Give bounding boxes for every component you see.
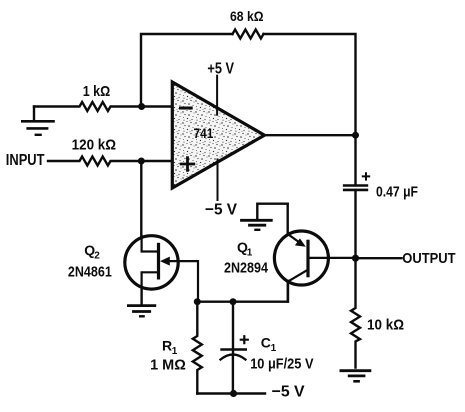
svg-text:+5 V: +5 V [207,61,234,78]
label -5 V (op-amp) [205,202,237,219]
label INPUT [6,152,45,169]
svg-text:2N4861: 2N4861 [68,263,112,280]
capacitor C1 10uF [221,302,248,394]
svg-text:68 kΩ: 68 kΩ [230,9,264,24]
label 10uF/25V [250,357,314,373]
label 1 MOhm [150,358,186,374]
label 741 [194,125,214,141]
label 68 kOhm [230,9,264,24]
label C1 [261,335,277,355]
svg-text:741: 741 [194,125,214,141]
node C1 top junction [230,298,237,305]
svg-text:OUTPUT: OUTPUT [402,250,455,267]
label +5 V [207,61,234,78]
resistor 1 kOhm with leads [34,102,173,111]
node inverting input junction [138,103,145,110]
wire op-amp output to rail [265,134,356,136]
wire -5V supply lead [217,160,219,201]
wire feedback top-left and down to inverting node [141,34,233,107]
capacitor 0.47uF [344,173,369,190]
resistor 10 kOhm vertical [351,258,360,367]
svg-text:2: 2 [94,250,100,261]
svg-text:120 kΩ: 120 kΩ [72,137,117,154]
svg-text:1: 1 [247,248,253,259]
svg-text:−5 V: −5 V [205,202,237,219]
svg-text:R: R [162,338,172,354]
svg-text:10 μF/25 V: 10 μF/25 V [250,357,314,373]
svg-text:2N2894: 2N2894 [224,260,269,277]
ground (Q1 emitter) [242,220,272,230]
wire bottom -5V [197,392,265,394]
label minus input [181,107,192,110]
node C1 bottom junction [230,390,237,397]
ground (Q2 source) [128,288,154,316]
label OUTPUT [402,250,455,267]
label 1 kOhm [83,83,111,100]
resistor R1 1M vertical [193,302,202,394]
transistor Q1 2N2894 PNP [274,204,355,302]
wire bottom bus [197,281,288,302]
svg-text:1: 1 [271,343,277,354]
wire to OUTPUT label [356,257,402,259]
svg-text:1: 1 [172,346,178,357]
svg-text:1 kΩ: 1 kΩ [83,83,111,100]
label 10 kOhm [367,317,404,334]
svg-text:10 kΩ: 10 kΩ [367,317,404,334]
op-amp U1 741 triangle [172,82,264,188]
ground (left, at 1k resistor) [22,107,53,135]
label 0.47 uF [376,185,418,201]
label plus input [181,158,194,171]
node OUTPUT junction [352,255,359,262]
resistor 68 kOhm zigzag [233,30,264,39]
node output rail junction [352,132,359,139]
wire rail cap to output node [354,190,356,258]
svg-text:−5 V: −5 V [272,384,305,401]
transistor Q2 2N4861 JFET [125,236,198,302]
wire +5V supply lead [216,76,218,115]
label 2N4861 [68,263,112,280]
node R1 top junction [194,298,201,305]
wire feedback top-right into output rail [264,34,356,185]
label Q1 [237,239,253,259]
label -5 V (bottom) [272,384,305,401]
svg-text:INPUT: INPUT [6,152,45,169]
label 120 kOhm [72,137,117,154]
label 2N2894 [224,260,269,277]
ground (below 10k) [341,371,370,382]
svg-text:0.47 μF: 0.47 μF [376,185,418,201]
wire from input node down to Q2 drain [140,161,142,238]
wire Q1 emitter to ground [257,204,287,221]
label Q2 [84,242,100,262]
node noninverting input junction [138,158,145,165]
svg-text:1 MΩ: 1 MΩ [150,358,186,374]
resistor 120 kOhm with leads [48,157,173,166]
label R1 [162,338,178,358]
svg-text:C: C [261,335,271,351]
